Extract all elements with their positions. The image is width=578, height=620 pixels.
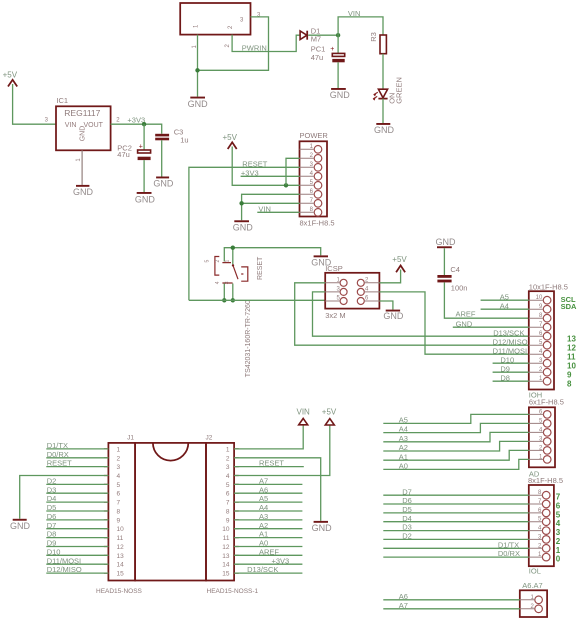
regulator IC1 [56, 106, 111, 150]
net VIN stub to pin8 [257, 211, 299, 213]
wire pin3 to gnd rail [198, 17, 269, 70]
ground under LED [374, 123, 395, 135]
ground under PC1 [330, 88, 351, 100]
svg-text:47u: 47u [117, 150, 130, 159]
junction VIN node [336, 33, 340, 37]
net D13/SCK stub [234, 572, 302, 574]
svg-text:PWRIN: PWRIN [242, 44, 267, 53]
wire J2 pin4 to +5V arrow [234, 425, 330, 476]
net A2 stub [234, 528, 302, 530]
wire button pin1 top [232, 248, 234, 265]
wire ICSP pin3 to D13/SCK [313, 292, 529, 336]
svg-text:RESET: RESET [47, 459, 72, 468]
svg-text:D7: D7 [402, 487, 412, 496]
svg-text:D3: D3 [47, 485, 57, 494]
svg-text:4: 4 [556, 519, 561, 528]
svg-text:D1/TX: D1/TX [498, 540, 519, 549]
wire J2 pin1 to VIN arrow [234, 425, 303, 449]
svg-text:A4: A4 [500, 301, 509, 310]
connector J2 strip [206, 443, 234, 581]
svg-text:D12/MISO: D12/MISO [493, 337, 528, 346]
svg-text:GND: GND [153, 178, 174, 188]
svg-text:1: 1 [117, 446, 121, 453]
svg-text:VIN: VIN [297, 408, 311, 417]
header ICSP 3x2 [325, 273, 379, 309]
net +3V3 stub to pin4 [241, 175, 300, 177]
supply +5V at power header [223, 133, 238, 149]
svg-text:13: 13 [222, 553, 230, 560]
wire IC1 pin2 +3V3 [111, 124, 162, 134]
svg-text:4: 4 [226, 473, 230, 480]
svg-text:2: 2 [556, 537, 561, 546]
svg-text:10: 10 [567, 362, 576, 371]
svg-text:D10: D10 [500, 355, 514, 364]
net A4 stub [481, 308, 529, 310]
svg-text:+5V: +5V [3, 71, 18, 80]
svg-text:7: 7 [117, 500, 121, 507]
svg-text:12: 12 [567, 344, 576, 353]
svg-text:A5: A5 [399, 416, 408, 425]
capacitor PC2 polarized [138, 144, 151, 160]
svg-text:+5V: +5V [392, 255, 407, 264]
svg-text:D4: D4 [402, 514, 412, 523]
svg-text:HEAD15-NOSS: HEAD15-NOSS [96, 588, 143, 595]
net D1/TX wire [383, 547, 529, 549]
header A6.A7 [520, 590, 547, 617]
svg-text:A1: A1 [259, 530, 268, 539]
net A1 wire staircase [383, 450, 529, 460]
svg-text:D3: D3 [402, 523, 412, 532]
net +3V3 stub [234, 563, 302, 565]
svg-text:3: 3 [117, 464, 121, 471]
junction gnd [239, 201, 243, 205]
wire ICSP pin1 to D12/MISO [295, 283, 529, 345]
svg-text:5: 5 [205, 260, 211, 263]
svg-text:+3V3: +3V3 [272, 556, 290, 565]
wire J2 pin2 to gnd [234, 458, 321, 521]
svg-text:7: 7 [226, 500, 230, 507]
supply arrow VIN [297, 408, 311, 425]
svg-text:ICSP: ICSP [325, 264, 343, 273]
svg-text:D13/SCK: D13/SCK [493, 328, 524, 337]
net A5 wire staircase [383, 414, 529, 423]
svg-text:M7: M7 [311, 35, 321, 44]
wire VIN node down to PC1 [337, 35, 339, 53]
svg-text:RESET: RESET [259, 459, 284, 468]
svg-text:RESET: RESET [257, 256, 264, 280]
svg-text:3x2 M: 3x2 M [325, 311, 345, 320]
net A1 stub [234, 537, 302, 539]
svg-text:GND: GND [312, 523, 333, 533]
svg-text:D1/TX: D1/TX [47, 441, 68, 450]
svg-text:10: 10 [117, 526, 125, 533]
net D4 wire [383, 521, 529, 523]
wire ICSP pin6 to gnd [379, 301, 393, 310]
svg-text:10: 10 [222, 526, 230, 533]
net D0/RX stub [46, 457, 108, 459]
svg-text:RESET: RESET [242, 160, 267, 169]
junction button top [231, 246, 235, 250]
svg-text:D11/MOSI: D11/MOSI [493, 346, 527, 355]
svg-text:A4: A4 [259, 503, 268, 512]
header AD [529, 407, 555, 467]
svg-text:1u: 1u [180, 136, 188, 145]
net D7 wire [383, 494, 529, 496]
wire +3V3 junction down to PC2 [143, 124, 145, 150]
svg-text:8x1F-H8.5: 8x1F-H8.5 [300, 219, 335, 228]
net D8 stub [46, 537, 108, 539]
header IOH [529, 291, 554, 389]
net A7 wire [383, 608, 520, 610]
svg-text:1: 1 [225, 260, 231, 263]
svg-text:GREEN: GREEN [395, 77, 404, 104]
resistor R3 [380, 35, 386, 54]
net D3 stub [46, 492, 108, 494]
svg-text:4: 4 [117, 473, 121, 480]
net D6 wire [383, 503, 529, 505]
svg-text:13: 13 [117, 553, 125, 560]
wire IC1 gnd [81, 150, 83, 185]
svg-text:A3: A3 [399, 434, 408, 443]
svg-text:GND: GND [188, 99, 209, 109]
svg-text:J1: J1 [127, 434, 134, 441]
svg-text:D0/RX: D0/RX [498, 549, 520, 558]
wire pin7 [242, 202, 300, 204]
svg-text:AREF: AREF [456, 309, 476, 318]
wire pin2 to +5V net [286, 158, 300, 185]
svg-text:5: 5 [226, 482, 230, 489]
junction +3V3 [142, 122, 146, 126]
svg-text:10: 10 [536, 295, 543, 301]
wire C3 to gnd [161, 140, 163, 176]
svg-text:REG1117: REG1117 [64, 108, 100, 118]
junction [195, 68, 199, 72]
svg-text:GND: GND [330, 90, 351, 100]
junction bottom right [231, 298, 235, 302]
net A6 wire [383, 599, 520, 601]
svg-text:9: 9 [117, 517, 121, 524]
ground under jack [188, 97, 209, 109]
svg-text:+5V: +5V [223, 133, 238, 142]
svg-text:A5: A5 [259, 494, 268, 503]
svg-text:6: 6 [117, 491, 121, 498]
ground under IC1 [73, 185, 94, 197]
svg-text:TS42031-160R-TR-7260: TS42031-160R-TR-7260 [245, 300, 252, 377]
svg-text:D2: D2 [47, 477, 57, 486]
ground under PC2 [135, 192, 156, 204]
svg-text:3: 3 [556, 528, 561, 537]
svg-text:J2: J2 [206, 434, 213, 441]
header SV1 POWER [300, 141, 328, 216]
svg-text:11: 11 [567, 353, 576, 362]
net D12/MISO stub [46, 572, 108, 574]
svg-text:11: 11 [223, 535, 230, 542]
svg-text:5: 5 [556, 510, 561, 519]
wire button pin3 bottom [232, 284, 234, 301]
net RESET stub J2 [234, 466, 304, 468]
switch S1 reset button [205, 257, 248, 285]
svg-text:15: 15 [222, 571, 230, 578]
wire D1 to VIN node [308, 34, 338, 36]
svg-text:3: 3 [226, 464, 230, 471]
svg-text:GND: GND [73, 187, 94, 197]
svg-text:100n: 100n [451, 284, 468, 293]
svg-text:GND: GND [374, 125, 395, 135]
net RESET wire to pin3 [189, 167, 300, 300]
svg-text:D10: D10 [47, 547, 61, 556]
svg-text:12: 12 [117, 544, 125, 551]
svg-text:A1: A1 [399, 452, 408, 461]
svg-text:IOL: IOL [529, 566, 541, 575]
net D3 wire [383, 530, 529, 532]
net A0 stub [234, 546, 302, 548]
svg-text:9: 9 [567, 371, 572, 380]
svg-text:VIN: VIN [348, 9, 361, 18]
wire +5V to pin5 [232, 147, 299, 186]
ground at J1 pin4 [10, 519, 31, 531]
capacitor PC1 polarized [330, 46, 344, 62]
svg-text:GND: GND [135, 194, 156, 204]
svg-text:GND: GND [383, 311, 404, 321]
ground at J2 pin2 [312, 521, 333, 533]
svg-text:SDA: SDA [561, 302, 577, 311]
svg-text:D7: D7 [47, 521, 57, 530]
svg-text:6: 6 [556, 502, 561, 511]
wire ICSP pin4 to D11/MOSI [379, 292, 528, 354]
net A6 stub [234, 492, 302, 494]
net D10 stub [493, 362, 529, 364]
net A5 stub [234, 501, 302, 503]
svg-text:D8: D8 [47, 530, 57, 539]
svg-text:A6.A7: A6.A7 [522, 581, 542, 590]
wire reset rail to ICSP pin5 [189, 299, 325, 301]
net AREF stub [234, 554, 302, 556]
ground at ICSP [383, 310, 404, 322]
svg-text:D2: D2 [402, 532, 412, 541]
wire ICSP pin2 to +5V [379, 270, 400, 283]
svg-text:A5: A5 [500, 292, 509, 301]
ground under C3 [153, 177, 174, 189]
svg-text:2: 2 [215, 260, 221, 263]
svg-text:A4: A4 [399, 425, 408, 434]
svg-text:7: 7 [556, 493, 561, 502]
supply +5V at ICSP [392, 255, 407, 272]
ground above C4 [436, 237, 457, 248]
svg-text:A6: A6 [399, 592, 408, 601]
net D1/TX stub [46, 448, 108, 450]
net GND stub [453, 326, 529, 328]
connector J1 strip [108, 443, 135, 581]
svg-text:D13/SCK: D13/SCK [247, 565, 278, 574]
svg-text:2: 2 [117, 455, 121, 462]
svg-text:D6: D6 [402, 496, 412, 505]
net PWRIN wire pin2 [232, 35, 300, 52]
svg-text:0: 0 [556, 555, 561, 564]
svg-text:8: 8 [117, 509, 121, 516]
svg-text:GND: GND [80, 126, 87, 142]
net D5 wire [383, 512, 529, 514]
svg-text:+3V3: +3V3 [241, 169, 259, 178]
svg-text:6x1F-H8.5: 6x1F-H8.5 [529, 397, 564, 406]
net A2 wire staircase [383, 441, 529, 451]
svg-text:C4: C4 [450, 265, 460, 274]
svg-text:D12/MISO: D12/MISO [47, 565, 82, 574]
svg-text:2: 2 [226, 455, 230, 462]
svg-text:VIN: VIN [65, 122, 77, 129]
net D11/MOSI stub [46, 563, 108, 565]
svg-text:D5: D5 [47, 503, 57, 512]
svg-text:8: 8 [567, 380, 572, 389]
svg-text:14: 14 [222, 562, 230, 569]
ground right of button [311, 255, 332, 267]
svg-text:10x1F-H8.5: 10x1F-H8.5 [529, 282, 568, 291]
svg-text:A0: A0 [399, 462, 408, 471]
net D9 stub [493, 371, 529, 373]
svg-text:D0/RX: D0/RX [47, 450, 69, 459]
net A3 wire staircase [383, 432, 529, 441]
capacitor C3 [155, 134, 169, 141]
ground under power header [233, 220, 254, 232]
wire J1 pin4 to gnd [20, 476, 109, 519]
net A3 stub [234, 519, 302, 521]
svg-text:1: 1 [556, 546, 561, 555]
svg-text:IC1: IC1 [56, 96, 68, 105]
svg-text:D9: D9 [500, 364, 510, 373]
svg-text:+5V: +5V [322, 408, 337, 417]
svg-text:14: 14 [117, 562, 125, 569]
diode D1 [300, 31, 307, 40]
svg-text:HEAD15-NOSS-1: HEAD15-NOSS-1 [207, 588, 259, 595]
svg-text:11: 11 [117, 535, 124, 542]
svg-text:GND: GND [436, 237, 457, 247]
wire PC1 to gnd [337, 62, 339, 88]
wire button top to gnd [224, 248, 320, 262]
svg-text:4: 4 [215, 281, 221, 284]
wire R3 to LED [382, 54, 384, 89]
connector X1 power jack [180, 3, 250, 35]
svg-text:5: 5 [117, 482, 121, 489]
svg-text:POWER: POWER [300, 131, 329, 140]
svg-text:D11/MOSI: D11/MOSI [47, 556, 81, 565]
svg-text:47u: 47u [311, 53, 324, 62]
wire VIN node up and right to R3 [338, 17, 383, 35]
junction pin5 [284, 183, 288, 187]
svg-text:AREF: AREF [259, 547, 279, 556]
wire button bottoms to reset rail [223, 284, 225, 301]
net D2 stub [46, 483, 108, 485]
wire C4 to AREF pin [444, 282, 528, 318]
LED1 ON green [373, 89, 388, 100]
supply +5V top left [3, 71, 18, 87]
svg-text:A0: A0 [259, 539, 268, 548]
J2 pin ticks [234, 449, 239, 573]
socket body with notch [135, 443, 206, 581]
svg-text:D4: D4 [47, 494, 57, 503]
svg-text:15: 15 [117, 571, 125, 578]
svg-text:VIN: VIN [258, 205, 271, 214]
svg-text:13: 13 [567, 335, 576, 344]
svg-text:A7: A7 [399, 601, 408, 610]
capacitor C4 [437, 275, 451, 282]
svg-text:9: 9 [226, 517, 230, 524]
supply arrow +5V [322, 408, 337, 426]
svg-text:1: 1 [226, 446, 230, 453]
svg-text:GND: GND [233, 223, 254, 233]
svg-text:8: 8 [226, 509, 230, 516]
net D10 stub [46, 554, 108, 556]
svg-text:GND: GND [10, 521, 31, 531]
svg-text:A3: A3 [259, 512, 268, 521]
net D2 wire [383, 538, 529, 540]
svg-text:A7: A7 [259, 477, 268, 486]
net A7 stub [234, 483, 302, 485]
wire pin1 down to gnd [197, 35, 199, 97]
svg-text:6: 6 [226, 491, 230, 498]
net D8 stub [493, 380, 529, 382]
svg-text:D5: D5 [402, 505, 412, 514]
J1 pin ticks [104, 449, 109, 573]
svg-text:D9: D9 [47, 539, 57, 548]
wire PC2 to gnd [143, 160, 145, 192]
wire pin6 pin7 gnd [242, 194, 300, 220]
net D7 stub [46, 528, 108, 530]
svg-text:8x1F-H8.5: 8x1F-H8.5 [528, 476, 563, 485]
net A0 wire staircase [383, 459, 529, 469]
svg-text:3: 3 [225, 281, 231, 284]
net D0/RX wire [383, 556, 529, 558]
svg-text:D8: D8 [500, 373, 510, 382]
net A4 wire staircase [383, 423, 529, 432]
net A4 stub [234, 510, 302, 512]
net D6 stub [46, 519, 108, 521]
svg-text:D6: D6 [47, 512, 57, 521]
net D5 stub [46, 510, 108, 512]
wire +5V to IC1 pin3 [13, 84, 56, 124]
net D9 stub [46, 546, 108, 548]
svg-text:VOUT: VOUT [84, 122, 104, 129]
wire gnd to C4 [443, 248, 445, 275]
net A5 stub [481, 299, 529, 301]
net D4 stub [46, 501, 108, 503]
svg-text:A2: A2 [399, 443, 408, 452]
wire LED to gnd [382, 99, 384, 123]
svg-text:+: + [330, 46, 334, 53]
net RESET stub [46, 466, 108, 468]
junction bottom left [222, 298, 226, 302]
svg-text:R3: R3 [369, 32, 378, 42]
svg-text:GND: GND [456, 319, 473, 328]
svg-text:12: 12 [222, 544, 230, 551]
header IOL [529, 485, 554, 566]
svg-text:A6: A6 [259, 485, 268, 494]
svg-text:A2: A2 [259, 521, 268, 530]
